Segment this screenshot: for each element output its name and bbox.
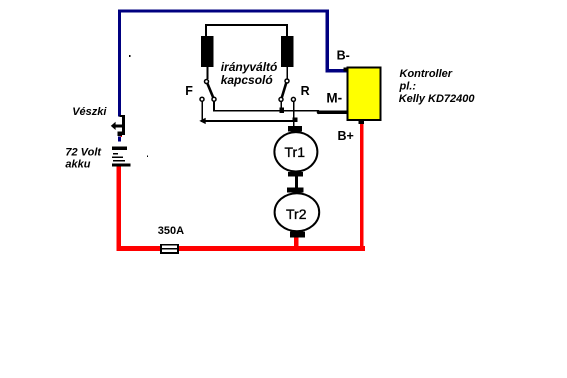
svg-text:irányváltó: irányváltó [221, 60, 278, 74]
svg-text:akku: akku [65, 159, 90, 171]
svg-text:B-: B- [337, 48, 350, 62]
svg-text:72 Volt: 72 Volt [65, 147, 102, 159]
svg-text:M-: M- [326, 91, 342, 106]
svg-text:B+: B+ [338, 129, 354, 143]
svg-text:350A: 350A [158, 225, 184, 237]
svg-text:R: R [301, 84, 310, 98]
svg-text:Kontroller: Kontroller [400, 68, 453, 80]
svg-text:Kelly KD72400: Kelly KD72400 [399, 93, 476, 105]
svg-text:kapcsoló: kapcsoló [221, 73, 273, 87]
svg-text:Vészki: Vészki [72, 106, 107, 118]
svg-text:Tr1: Tr1 [285, 144, 306, 160]
svg-text:F: F [185, 84, 193, 98]
svg-text:pl.:: pl.: [399, 80, 417, 92]
svg-text:Tr2: Tr2 [286, 206, 307, 222]
